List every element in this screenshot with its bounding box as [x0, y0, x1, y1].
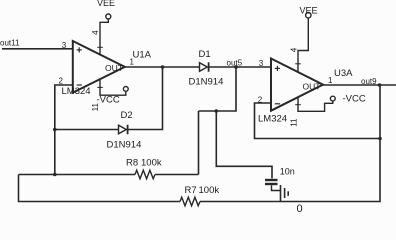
svg-text:D1: D1	[199, 49, 211, 60]
svg-text:LM324: LM324	[258, 114, 287, 125]
junction: feedback tee	[378, 137, 382, 141]
svg-text:D2: D2	[121, 110, 133, 121]
svg-text:out5: out5	[227, 59, 243, 68]
wire: drop to R8	[198, 111, 200, 175]
svg-text:-VCC: -VCC	[97, 95, 120, 106]
svg-text:11: 11	[289, 118, 298, 127]
svg-text:3: 3	[259, 59, 264, 68]
wire: D1 cathode to U3A pin 3	[209, 66, 271, 68]
power symbol VEE (U3A V+)	[295, 13, 311, 73]
op-amp U1A	[73, 41, 125, 93]
wire: feedback to U3A pin 2	[255, 103, 381, 139]
power symbol -VCC (U3A V-)	[295, 96, 335, 111]
svg-text:U3A: U3A	[334, 68, 353, 79]
svg-text:2: 2	[258, 95, 263, 104]
svg-text:U1A: U1A	[133, 49, 152, 60]
svg-text:LM324: LM324	[62, 86, 91, 97]
wire: R8 rail left segment	[19, 174, 136, 176]
junction at capacitor branch	[215, 109, 219, 113]
svg-text:R7: R7	[185, 185, 197, 196]
wire: U1A output to D1 anode	[125, 66, 200, 68]
wire: out5 drop to mid rail	[199, 67, 237, 111]
svg-text:4: 4	[91, 30, 100, 35]
svg-text:D1N914: D1N914	[189, 77, 224, 88]
power symbol VEE (U1A V+)	[97, 14, 111, 55]
wire: U3A output to net out9	[323, 84, 396, 86]
power symbol -VCC (U1A V-)	[97, 80, 128, 96]
wire: D2 anode run	[55, 129, 119, 131]
diode D1	[200, 62, 209, 71]
wire: left loop down to bottom rail	[19, 175, 181, 202]
junction: node out5	[234, 65, 238, 69]
svg-text:D1N914: D1N914	[107, 140, 142, 151]
svg-text:R8: R8	[126, 158, 138, 169]
svg-text:10n: 10n	[280, 166, 295, 176]
svg-text:100k: 100k	[199, 185, 220, 196]
svg-text:out11: out11	[0, 39, 20, 48]
wire: D2 cathode to U1A output	[128, 67, 163, 130]
capacitor C1 (10n)	[265, 180, 280, 191]
svg-text:2: 2	[59, 76, 64, 85]
junction: U1A output node	[161, 65, 165, 69]
op-amp U3A	[271, 59, 323, 111]
junction at R8 rail	[53, 173, 57, 177]
svg-text:3: 3	[62, 41, 67, 50]
svg-text:1: 1	[328, 76, 333, 85]
resistor R8	[135, 170, 155, 179]
svg-text:100k: 100k	[141, 158, 162, 169]
wire: R8 to drop	[155, 174, 199, 176]
svg-text:VEE: VEE	[300, 6, 318, 16]
junction at D2 anode	[53, 128, 57, 132]
svg-text:OUT: OUT	[303, 82, 321, 92]
wire: U1A pin 2 feedback down	[55, 85, 73, 175]
wire: net out11 to U1A pin 3	[2, 48, 73, 50]
ground 0 symbol	[281, 185, 289, 202]
junction: node out9	[378, 83, 382, 87]
svg-text:1: 1	[130, 58, 135, 67]
diode D2	[119, 125, 128, 134]
svg-text:4: 4	[290, 47, 299, 52]
resistor R7	[180, 197, 200, 206]
wire: capacitor branch	[216, 111, 272, 178]
svg-text:0: 0	[297, 203, 303, 215]
wire: bottom rail to right riser	[200, 85, 380, 202]
svg-text:out9: out9	[361, 77, 377, 86]
svg-text:VEE: VEE	[97, 0, 115, 8]
svg-text:OUT: OUT	[105, 63, 123, 73]
svg-text:-VCC: -VCC	[343, 94, 366, 105]
